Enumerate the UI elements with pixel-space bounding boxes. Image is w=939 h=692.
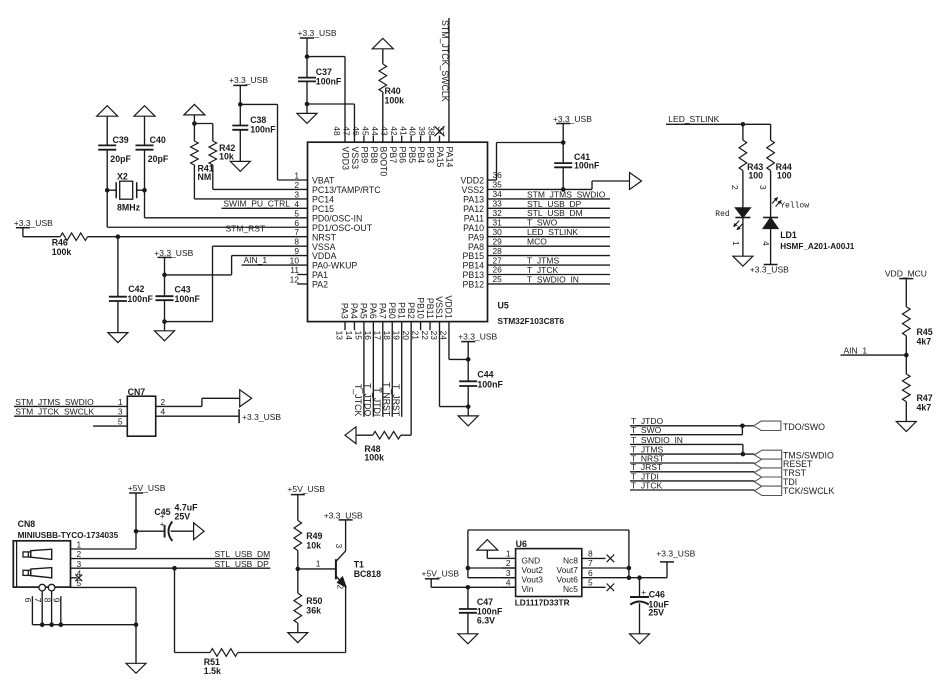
svg-text:5: 5 (588, 578, 593, 588)
svg-text:Vout6: Vout6 (556, 575, 578, 585)
svg-text:100nF: 100nF (127, 294, 153, 304)
svg-text:PA4: PA4 (349, 303, 359, 319)
svg-text:Yellow: Yellow (780, 201, 809, 210)
svg-text:T_JTCK: T_JTCK (353, 384, 363, 416)
svg-text:C43: C43 (175, 284, 191, 294)
svg-text:8MHz: 8MHz (117, 202, 141, 212)
svg-text:STM_JTCK_SWCLK: STM_JTCK_SWCLK (440, 20, 450, 102)
svg-text:X2: X2 (117, 171, 128, 181)
svg-text:PB11: PB11 (425, 298, 435, 319)
svg-text:3: 3 (77, 559, 82, 569)
svg-text:PA2: PA2 (312, 280, 328, 290)
svg-text:5: 5 (118, 417, 123, 427)
svg-text:3: 3 (758, 185, 768, 190)
svg-text:HSMF_A201-A00J1: HSMF_A201-A00J1 (780, 242, 855, 251)
svg-text:4: 4 (506, 578, 511, 588)
svg-text:100k: 100k (52, 247, 72, 257)
svg-text:T_JTCK: T_JTCK (631, 480, 663, 490)
svg-text:C46: C46 (649, 589, 665, 599)
svg-text:PA3: PA3 (340, 303, 350, 319)
svg-text:PA15: PA15 (435, 147, 445, 168)
svg-text:R49: R49 (306, 531, 322, 541)
svg-text:VSS3: VSS3 (350, 147, 360, 170)
svg-text:+5V_USB: +5V_USB (422, 569, 460, 579)
svg-text:PB10: PB10 (415, 297, 425, 319)
svg-text:1: 1 (731, 241, 741, 246)
svg-text:25V: 25V (648, 607, 664, 617)
svg-text:STL_USB_DM: STL_USB_DM (215, 549, 271, 559)
svg-text:1: 1 (118, 397, 123, 407)
svg-text:4k7: 4k7 (917, 337, 932, 347)
svg-text:SWIM_PU_CTRL: SWIM_PU_CTRL (223, 199, 290, 209)
svg-text:NM: NM (198, 172, 212, 182)
svg-text:6.3V: 6.3V (477, 616, 495, 626)
svg-text:1: 1 (316, 558, 321, 568)
svg-text:4k7: 4k7 (917, 403, 932, 413)
svg-text:1: 1 (77, 540, 82, 550)
svg-text:+3.3_USB: +3.3_USB (14, 218, 53, 228)
svg-text:4: 4 (761, 241, 771, 246)
svg-text:R45: R45 (917, 327, 933, 337)
svg-text:2: 2 (506, 558, 511, 568)
svg-text:9: 9 (52, 598, 62, 603)
svg-text:100k: 100k (364, 453, 384, 463)
svg-text:U5: U5 (498, 301, 509, 311)
svg-text:40: 40 (408, 126, 418, 136)
svg-text:R47: R47 (917, 393, 933, 403)
svg-text:STL_USB_DP: STL_USB_DP (215, 559, 270, 569)
svg-text:T_SWDIO_IN: T_SWDIO_IN (527, 274, 579, 284)
svg-text:TDO/SWO: TDO/SWO (783, 422, 825, 432)
svg-text:12: 12 (290, 274, 300, 284)
svg-text:6: 6 (588, 568, 593, 578)
svg-text:C39: C39 (113, 135, 129, 145)
svg-text:C37: C37 (316, 67, 332, 77)
svg-text:3: 3 (334, 544, 344, 549)
svg-text:41: 41 (398, 126, 408, 136)
svg-text:PB5: PB5 (407, 147, 417, 164)
svg-text:PA7: PA7 (378, 303, 388, 319)
svg-text:+3.3_USB: +3.3_USB (298, 28, 337, 38)
svg-text:LED_STLINK: LED_STLINK (668, 114, 719, 124)
svg-text:T_JTDO: T_JTDO (362, 383, 372, 416)
svg-text:U6: U6 (516, 539, 527, 549)
svg-text:10k: 10k (219, 151, 234, 161)
svg-text:100nF: 100nF (574, 161, 600, 171)
svg-text:PB8: PB8 (369, 147, 379, 164)
svg-text:38: 38 (427, 126, 437, 136)
svg-text:37: 37 (436, 126, 446, 136)
svg-text:2: 2 (730, 185, 740, 190)
svg-text:PA5: PA5 (359, 303, 369, 319)
svg-text:13: 13 (335, 331, 345, 341)
svg-text:47: 47 (342, 126, 352, 136)
svg-text:STM32F103C8T6: STM32F103C8T6 (498, 316, 565, 326)
svg-text:+3.3_USB: +3.3_USB (553, 114, 592, 124)
svg-text:C47: C47 (477, 597, 493, 607)
svg-text:4: 4 (161, 407, 166, 417)
svg-text:VDD3: VDD3 (341, 147, 351, 171)
svg-text:BC818: BC818 (354, 569, 381, 579)
svg-text:T_SWDIO_IN: T_SWDIO_IN (631, 435, 683, 445)
svg-text:+: + (160, 520, 165, 529)
svg-text:Red: Red (715, 210, 730, 219)
svg-text:BOOT0: BOOT0 (378, 147, 388, 177)
svg-text:STM_JTCK_SWCLK: STM_JTCK_SWCLK (15, 407, 94, 417)
svg-text:GND: GND (522, 555, 541, 565)
svg-text:25: 25 (493, 274, 503, 284)
svg-text:STM_JTMS_SWDIO: STM_JTMS_SWDIO (15, 397, 94, 407)
svg-text:+5V_USB: +5V_USB (128, 483, 166, 493)
svg-text:Vout3: Vout3 (522, 575, 544, 585)
svg-text:100k: 100k (385, 95, 405, 105)
svg-text:PA14: PA14 (445, 147, 455, 168)
svg-text:7: 7 (588, 558, 593, 568)
svg-text:20pF: 20pF (110, 154, 131, 164)
svg-text:VDD1: VDD1 (444, 295, 454, 319)
svg-text:2: 2 (77, 549, 82, 559)
svg-text:23: 23 (429, 331, 439, 341)
svg-text:44: 44 (370, 126, 380, 136)
svg-text:100nF: 100nF (477, 380, 503, 390)
svg-text:48: 48 (332, 126, 342, 136)
svg-text:7: 7 (33, 598, 43, 603)
svg-text:PB9: PB9 (360, 147, 370, 164)
svg-text:3: 3 (118, 407, 123, 417)
svg-text:PB7: PB7 (388, 147, 398, 164)
svg-text:PB12: PB12 (462, 280, 484, 290)
svg-text:PB2: PB2 (406, 302, 416, 319)
svg-text:STM_RST: STM_RST (226, 224, 266, 234)
svg-text:AIN_1: AIN_1 (844, 345, 868, 355)
svg-text:2: 2 (335, 585, 345, 590)
svg-text:Vout2: Vout2 (522, 565, 544, 575)
svg-text:Nc8: Nc8 (563, 555, 578, 565)
svg-text:1.5k: 1.5k (204, 666, 221, 676)
svg-text:+3.3_USB: +3.3_USB (324, 511, 363, 521)
svg-text:C44: C44 (477, 369, 493, 379)
svg-text:39: 39 (417, 126, 427, 136)
svg-text:MINIUSBB-TYCO-1734035: MINIUSBB-TYCO-1734035 (18, 531, 119, 540)
svg-text:100: 100 (777, 170, 792, 180)
svg-text:8: 8 (588, 549, 593, 559)
svg-text:36k: 36k (306, 605, 321, 615)
svg-text:T_JRST: T_JRST (391, 384, 401, 417)
svg-text:C40: C40 (150, 135, 166, 145)
svg-text:PB0: PB0 (387, 302, 397, 319)
svg-text:LD1: LD1 (780, 230, 797, 240)
svg-text:+: + (641, 588, 646, 597)
svg-text:100nF: 100nF (316, 77, 342, 87)
svg-text:100nF: 100nF (250, 124, 276, 134)
svg-text:PB4: PB4 (416, 147, 426, 164)
svg-text:+3.3_USB: +3.3_USB (229, 75, 268, 85)
svg-text:2: 2 (161, 397, 166, 407)
svg-text:+3.3_USB: +3.3_USB (242, 412, 281, 422)
svg-text:PB3: PB3 (426, 147, 436, 164)
svg-text:TCK/SWCLK: TCK/SWCLK (783, 486, 834, 496)
svg-text:Nc5: Nc5 (563, 584, 578, 594)
svg-text:100: 100 (748, 170, 763, 180)
svg-text:PB1: PB1 (396, 302, 406, 319)
svg-text:+3.3_USB: +3.3_USB (750, 265, 789, 275)
svg-text:Vout7: Vout7 (556, 565, 578, 575)
svg-text:T_NRST: T_NRST (381, 382, 391, 417)
svg-text:8: 8 (42, 598, 52, 603)
svg-text:T_SWO: T_SWO (631, 425, 662, 435)
svg-text:PA6: PA6 (368, 303, 378, 319)
svg-text:22: 22 (420, 331, 430, 341)
svg-text:VSS1: VSS1 (434, 296, 444, 319)
svg-text:20pF: 20pF (148, 154, 169, 164)
svg-text:AIN_1: AIN_1 (244, 255, 268, 265)
svg-text:Vin: Vin (522, 584, 534, 594)
svg-text:MCO: MCO (527, 237, 547, 247)
svg-text:43: 43 (379, 126, 389, 136)
svg-text:PB6: PB6 (397, 147, 407, 164)
svg-text:C42: C42 (128, 284, 144, 294)
svg-text:+5V_USB: +5V_USB (287, 484, 325, 494)
svg-text:6: 6 (23, 598, 33, 603)
svg-text:25V: 25V (175, 512, 191, 522)
svg-text:46: 46 (351, 126, 361, 136)
svg-text:T1: T1 (354, 560, 364, 570)
svg-text:+3.3_USB: +3.3_USB (458, 331, 497, 341)
svg-text:VDD_MCU: VDD_MCU (885, 268, 927, 278)
svg-text:T_JTDI: T_JTDI (372, 387, 382, 416)
svg-text:LD1117D33TR: LD1117D33TR (515, 598, 570, 608)
svg-text:+3.3_USB: +3.3_USB (154, 248, 193, 258)
svg-text:3: 3 (506, 568, 511, 578)
svg-text:R50: R50 (306, 596, 322, 606)
svg-text:14: 14 (344, 331, 354, 341)
svg-text:CN8: CN8 (18, 519, 36, 529)
svg-text:45: 45 (360, 126, 370, 136)
svg-text:1: 1 (506, 549, 511, 559)
svg-text:15: 15 (354, 331, 364, 341)
svg-text:+3.3_USB: +3.3_USB (656, 548, 695, 558)
svg-text:42: 42 (389, 126, 399, 136)
svg-text:100nF: 100nF (175, 294, 201, 304)
svg-text:10k: 10k (306, 541, 321, 551)
